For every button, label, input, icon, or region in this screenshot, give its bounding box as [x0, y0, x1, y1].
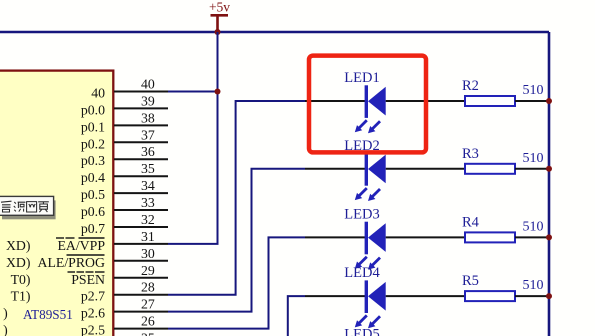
svg-text:28: 28 — [141, 280, 155, 295]
wire +5v top rail — [0, 31, 549, 34]
svg-text:p2.5: p2.5 — [81, 323, 105, 336]
svg-text:37: 37 — [141, 127, 155, 142]
LED4 triangle — [368, 282, 386, 311]
wire R3 to rail — [515, 168, 549, 170]
junction dot LED2 row on rail — [546, 166, 552, 172]
svg-text:25: 25 — [141, 331, 155, 336]
LED1 emission arrow 1 — [359, 120, 367, 128]
wire pin26 to LED3 — [168, 237, 305, 328]
svg-text:26: 26 — [141, 314, 155, 329]
svg-text:T0): T0) — [11, 272, 31, 288]
svg-text:+5v: +5v — [209, 0, 230, 15]
tooltip 看源网页 — [0, 196, 56, 219]
svg-text:510: 510 — [523, 278, 544, 293]
LED1 cathode bar — [365, 85, 368, 118]
LED 3 — [305, 206, 465, 269]
pin 32 stub wire — [114, 226, 168, 228]
overline — [56, 237, 64, 239]
pin 28 p2.7 — [11, 280, 168, 305]
svg-text:p0.3: p0.3 — [81, 153, 105, 168]
svg-text:36: 36 — [141, 144, 155, 159]
R5 body — [465, 291, 515, 301]
svg-text:35: 35 — [141, 161, 155, 176]
wire LED3 left lead — [305, 236, 365, 238]
wire pin25 to LED4 (runs off bottom) — [288, 296, 305, 336]
pin 34 p0.5 — [81, 178, 168, 202]
svg-text:PSEN: PSEN — [71, 272, 105, 287]
wire LED4 right lead — [386, 295, 465, 297]
LED 4 — [305, 265, 465, 328]
pin 35 stub wire — [114, 175, 168, 177]
overline — [67, 254, 105, 256]
wire R2 to rail — [515, 100, 549, 102]
pin 27 stub wire — [114, 311, 168, 313]
pin 40 stub wire — [114, 91, 168, 93]
wire LED1 left lead — [305, 100, 365, 102]
LED2 emission arrow 1 — [359, 188, 367, 196]
wire LED4 left lead — [305, 295, 365, 297]
wire LED3 right lead — [386, 236, 465, 238]
pin 28 stub wire — [114, 294, 168, 296]
svg-text:p0.5: p0.5 — [81, 187, 105, 202]
R2 body — [465, 96, 515, 106]
overline — [68, 271, 76, 273]
pin 27 p2.6 — [3, 297, 168, 322]
wire pin28 to LED1 — [168, 101, 305, 295]
pin 33 p0.6 — [81, 195, 168, 219]
LED4 cathode bar — [365, 280, 368, 313]
svg-text:31: 31 — [141, 229, 155, 244]
svg-text:p2.6: p2.6 — [81, 306, 105, 321]
LED2 cathode bar — [365, 153, 368, 186]
svg-text:LED5: LED5 — [344, 327, 379, 336]
svg-text:ALE/PROG: ALE/PROG — [38, 255, 105, 270]
svg-text:R3: R3 — [462, 146, 479, 162]
wire pin40 to vcc vertical — [168, 91, 218, 93]
LED 1 — [305, 70, 465, 133]
pin 26 p2.5 — [3, 314, 168, 336]
wire vcc vertical (+5v to pin31) — [168, 32, 218, 244]
svg-text:p0.7: p0.7 — [81, 221, 105, 236]
wire R4 to rail — [515, 236, 549, 238]
resistor R3 — [462, 146, 549, 174]
pin 29 stub wire — [114, 277, 168, 279]
svg-text:510: 510 — [523, 151, 544, 166]
svg-text:34: 34 — [141, 178, 155, 193]
pin 35 p0.4 — [81, 161, 168, 185]
svg-text:): ) — [3, 323, 8, 336]
svg-text:R2: R2 — [462, 78, 479, 94]
pin 36 p0.3 — [81, 144, 168, 168]
pin 30 stub wire — [114, 260, 168, 262]
wire LED2 left lead — [305, 168, 365, 170]
svg-text:p0.4: p0.4 — [81, 170, 105, 185]
pin 30 ALE/PROG — [6, 246, 168, 271]
svg-text:39: 39 — [141, 93, 155, 108]
junction dot pin40 node — [215, 89, 221, 95]
pin 39 p0.0 — [81, 93, 168, 117]
pin 37 stub wire — [114, 141, 168, 143]
pin 39 stub wire — [114, 107, 168, 109]
LED2 triangle — [368, 155, 386, 184]
resistor R5 — [462, 273, 549, 301]
wire pin27 to LED2 — [168, 169, 305, 312]
svg-text:XD): XD) — [6, 255, 31, 271]
annotation red box around LED1 — [309, 56, 426, 153]
wire LED1 right lead — [386, 100, 465, 102]
pin 34 stub wire — [114, 192, 168, 194]
svg-text:29: 29 — [141, 263, 155, 278]
pin 31 EA/VPP — [6, 229, 168, 254]
LED1 emission arrow 2 — [372, 121, 380, 129]
svg-text:p0.2: p0.2 — [81, 136, 105, 151]
pin 37 p0.2 — [81, 127, 168, 151]
svg-text:32: 32 — [141, 212, 155, 227]
wire R5 to rail — [515, 295, 549, 297]
IC U1 AT89S51 body — [0, 71, 113, 336]
pin 32 p0.7 — [81, 212, 168, 236]
pin 29 PSEN — [11, 263, 168, 288]
svg-text:p0.6: p0.6 — [81, 204, 105, 219]
resistor R2 — [462, 78, 549, 106]
svg-text:38: 38 — [141, 110, 155, 125]
svg-text:p0.1: p0.1 — [81, 119, 105, 134]
resistor R4 — [462, 214, 549, 242]
svg-text:40: 40 — [91, 86, 105, 101]
svg-text:p2.7: p2.7 — [81, 289, 105, 304]
pin 36 stub wire — [114, 158, 168, 160]
pin 33 stub wire — [114, 209, 168, 211]
wire +5v right rail — [548, 32, 551, 336]
svg-text:510: 510 — [523, 219, 544, 234]
svg-text:AT89S51: AT89S51 — [23, 307, 73, 322]
pin 31 stub wire — [114, 243, 168, 245]
LED3 triangle — [368, 223, 386, 252]
svg-text:XD): XD) — [6, 238, 31, 254]
junction dot LED4 row on rail — [546, 293, 552, 299]
pin 40 (VCC) — [91, 77, 168, 101]
svg-text:510: 510 — [523, 83, 544, 98]
pin 38 stub wire — [114, 124, 168, 126]
svg-text:R5: R5 — [462, 273, 479, 289]
junction dot at +5v on rail — [215, 29, 221, 35]
svg-text:LED1: LED1 — [344, 70, 379, 86]
svg-text:T1): T1) — [11, 289, 31, 305]
junction dot LED3 row on rail — [546, 234, 552, 240]
svg-text:40: 40 — [141, 77, 155, 92]
wire LED2 right lead — [386, 168, 465, 170]
junction dot LED1 row on rail — [546, 98, 552, 104]
R4 body — [465, 232, 515, 242]
pin 38 p0.1 — [81, 110, 168, 134]
LED4 emission arrow 1 — [359, 315, 367, 323]
pin 26 stub wire — [114, 328, 168, 330]
LED1 triangle — [368, 87, 386, 116]
R3 body — [465, 164, 515, 174]
LED4 emission arrow 2 — [372, 316, 380, 324]
power +5v symbol — [209, 0, 230, 32]
svg-text:EA/VPP: EA/VPP — [57, 238, 105, 253]
svg-text:): ) — [3, 306, 8, 322]
svg-text:27: 27 — [141, 297, 155, 312]
LED 2 — [305, 138, 465, 201]
svg-text:p0.0: p0.0 — [81, 102, 105, 117]
svg-text:30: 30 — [141, 246, 155, 261]
svg-text:LED3: LED3 — [344, 206, 379, 222]
LED2 emission arrow 2 — [372, 189, 380, 197]
LED3 emission arrow 2 — [372, 258, 380, 266]
svg-text:R4: R4 — [462, 214, 480, 230]
svg-text:LED4: LED4 — [344, 265, 380, 281]
LED3 emission arrow 1 — [359, 257, 367, 265]
LED3 cathode bar — [365, 222, 368, 255]
svg-text:33: 33 — [141, 195, 155, 210]
